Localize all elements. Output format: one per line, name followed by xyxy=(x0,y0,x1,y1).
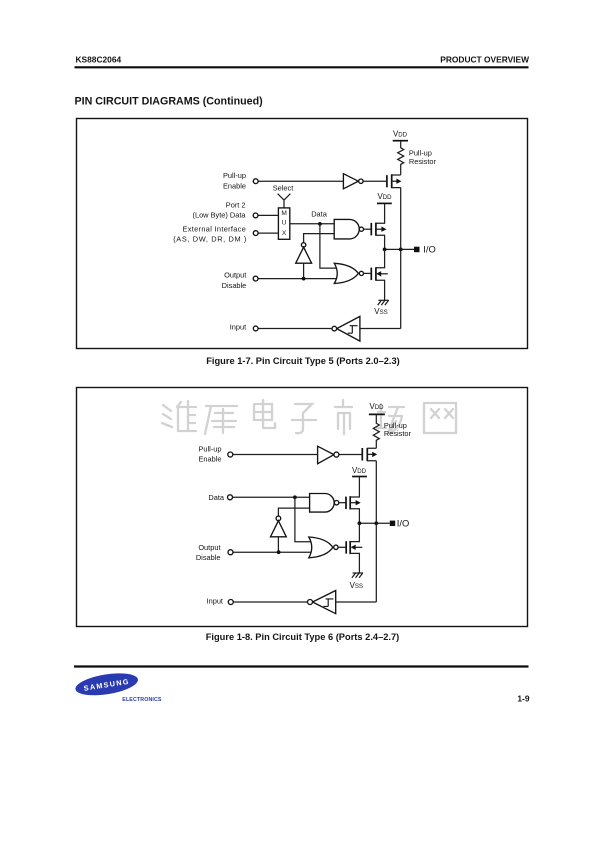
select arrow into MUX xyxy=(278,194,291,208)
svg-text:(AS, DW, DR, DM ): (AS, DW, DR, DM ) xyxy=(173,234,247,243)
svg-text:M: M xyxy=(281,210,287,217)
svg-text:X: X xyxy=(282,230,287,237)
wire: pull-up drain down to input tap xyxy=(375,461,377,602)
NOR gate N2 xyxy=(334,263,363,283)
I/O pad xyxy=(390,521,395,526)
resistor value label: Pull-up Resistor xyxy=(409,149,437,166)
svg-text:Disable: Disable xyxy=(222,281,247,290)
wire: port2 data into MUX xyxy=(258,214,278,216)
transistor Q3: NMOS driver xyxy=(371,249,388,300)
svg-text:VSS: VSS xyxy=(350,581,363,590)
label: Output Disable xyxy=(196,543,221,562)
node: pull-up line junction xyxy=(374,521,378,525)
power rail VDD (top, fig1) xyxy=(393,129,408,140)
svg-text:VDD: VDD xyxy=(352,466,367,475)
wire: NAND out to Q5 gate xyxy=(339,502,346,504)
svg-text:Data: Data xyxy=(208,493,225,502)
node: pull-up line junction xyxy=(399,248,403,252)
node: data junction xyxy=(318,222,322,226)
buffer U4 (pull-up enable, inverter) xyxy=(318,446,339,464)
samsung logo ellipse xyxy=(74,670,140,699)
schmitt trigger U6 (input buffer) xyxy=(308,591,336,614)
wire: output disable to NOR lower input xyxy=(233,551,311,553)
wire: data branch down to NOR top input xyxy=(320,224,336,268)
transistor Q5: PMOS driver xyxy=(346,477,361,524)
label: Port 2 (Low Byte) Data xyxy=(193,200,247,219)
svg-text:I/O: I/O xyxy=(397,517,410,528)
NAND gate N3 xyxy=(310,494,339,513)
wire: pull-up drain down to input tap xyxy=(400,188,402,329)
svg-text:Select: Select xyxy=(273,183,294,192)
wire: pull-up enable xyxy=(258,180,343,182)
header rule xyxy=(75,66,529,68)
terminal: External Interface xyxy=(253,231,258,236)
wire: inverter input stem xyxy=(277,537,279,552)
wire: I/O node row xyxy=(359,522,389,524)
svg-text:Enable: Enable xyxy=(198,455,221,464)
wire: data branch down to NOR top input xyxy=(295,497,311,542)
svg-text:1-9: 1-9 xyxy=(517,693,529,703)
wire: output disable to NOR lower input xyxy=(258,278,336,280)
watermark: gray chinese characters xyxy=(162,400,456,434)
resistor value label: Pull-up Resistor xyxy=(384,421,412,438)
svg-text:Pull-up: Pull-up xyxy=(198,444,221,453)
wire: data to NAND input xyxy=(233,496,310,498)
power rail VDD (driver, fig1) xyxy=(377,192,392,204)
footer rule xyxy=(74,665,529,667)
node: output disable junction xyxy=(302,277,306,281)
wire: pull-up enable xyxy=(233,454,318,456)
svg-text:Data: Data xyxy=(311,209,328,218)
transistor Q4: pull-up PMOS xyxy=(362,448,377,461)
schmitt trigger U3 (input buffer) xyxy=(332,316,360,341)
svg-text:Port 2: Port 2 xyxy=(226,200,246,209)
node: drain junction xyxy=(358,521,362,525)
ground VSS (fig2) xyxy=(350,573,363,590)
wire: inverter output up to NAND lower input xyxy=(304,234,335,243)
svg-text:Input: Input xyxy=(230,322,246,331)
terminal: Pull-up Enable xyxy=(253,179,258,184)
figure 1-8 frame xyxy=(77,388,528,627)
svg-text:KS88C2064: KS88C2064 xyxy=(76,55,122,65)
transistor Q2: PMOS driver xyxy=(371,204,386,250)
inverter V1 (output disable, points up) xyxy=(296,243,312,264)
svg-text:VDD: VDD xyxy=(370,402,385,411)
svg-text:VDD: VDD xyxy=(393,129,408,138)
terminal: Input xyxy=(228,600,233,605)
MUX U2 xyxy=(278,208,289,239)
wire: MUX output (Data) to NAND input xyxy=(290,223,334,225)
svg-text:Output: Output xyxy=(198,543,220,552)
wire: buffer output to Q4 gate xyxy=(339,454,362,456)
wire: input terminal to schmitt xyxy=(233,601,307,603)
label: Output Disable xyxy=(222,270,247,289)
wire: input terminal to schmitt xyxy=(258,328,332,330)
svg-text:PIN CIRCUIT DIAGRAMS (Continue: PIN CIRCUIT DIAGRAMS (Continued) xyxy=(75,95,264,107)
terminal: Input xyxy=(253,326,258,331)
buffer U1 (pull-up enable, inverter) xyxy=(343,174,363,189)
pull-up resistor R1 xyxy=(398,141,404,175)
svg-text:PRODUCT OVERVIEW: PRODUCT OVERVIEW xyxy=(440,55,529,65)
terminal: Output Disable xyxy=(253,276,258,281)
terminal: Data xyxy=(228,495,233,500)
figure 1-7 frame xyxy=(77,119,528,349)
svg-text:Resistor: Resistor xyxy=(409,157,437,166)
label: Pull-up Enable xyxy=(223,171,246,190)
wire: NOR out to Q6 gate xyxy=(338,546,346,548)
node: output disable junction xyxy=(277,550,281,554)
wire: NAND out to Q2 gate xyxy=(364,228,372,230)
label: Pull-up Enable xyxy=(198,444,221,463)
wire: buffer output to Q1 gate xyxy=(363,180,387,182)
svg-text:Output: Output xyxy=(224,270,246,279)
transistor Q6: NMOS driver xyxy=(346,523,362,573)
power rail VDD (top, fig2) xyxy=(369,402,385,414)
terminal: Pull-up Enable xyxy=(228,452,233,457)
inverter V2 (output disable, points up) xyxy=(271,516,287,537)
svg-text:Figure 1-7. Pin Circuit Type 5: Figure 1-7. Pin Circuit Type 5 (Ports 2.… xyxy=(206,356,400,366)
wire: external interface into MUX xyxy=(258,232,278,234)
wire: schmitt output to pad line xyxy=(360,328,401,330)
svg-text:(Low Byte) Data: (Low Byte) Data xyxy=(193,210,247,219)
NOR gate N4 xyxy=(309,537,338,558)
I/O pad xyxy=(414,247,420,253)
svg-text:External Interface: External Interface xyxy=(183,224,247,233)
transistor Q1: pull-up PMOS xyxy=(387,174,402,188)
label: External Interface (AS, DW, DR, DM ) xyxy=(173,224,247,243)
wire: I/O node row xyxy=(385,248,414,250)
svg-text:Input: Input xyxy=(207,597,223,606)
svg-text:Figure 1-8. Pin Circuit Type 6: Figure 1-8. Pin Circuit Type 6 (Ports 2.… xyxy=(206,632,400,642)
svg-text:ELECTRONICS: ELECTRONICS xyxy=(122,697,162,703)
power rail VDD (driver, fig2) xyxy=(352,466,367,477)
svg-text:Disable: Disable xyxy=(196,553,221,562)
svg-text:U: U xyxy=(282,220,287,227)
wire: schmitt output to pad line xyxy=(336,601,377,603)
ground VSS (fig1) xyxy=(374,300,389,316)
svg-text:Enable: Enable xyxy=(223,181,246,190)
svg-text:VDD: VDD xyxy=(378,192,393,201)
svg-text:Resistor: Resistor xyxy=(384,429,412,438)
NAND gate N1 xyxy=(334,219,363,239)
node: drain junction xyxy=(383,248,387,252)
node: data junction xyxy=(293,495,297,499)
terminal: Port 2 data xyxy=(253,213,258,218)
pull-up resistor R2 xyxy=(373,415,379,449)
svg-text:Pull-up: Pull-up xyxy=(223,171,246,180)
wire: inverter input stem xyxy=(303,263,305,278)
wire: NOR out to Q3 gate xyxy=(364,272,372,274)
terminal: Output Disable xyxy=(228,550,233,555)
svg-text:I/O: I/O xyxy=(423,243,436,254)
svg-text:VSS: VSS xyxy=(374,307,387,316)
wire: inverter output up to NAND lower input xyxy=(278,508,309,516)
